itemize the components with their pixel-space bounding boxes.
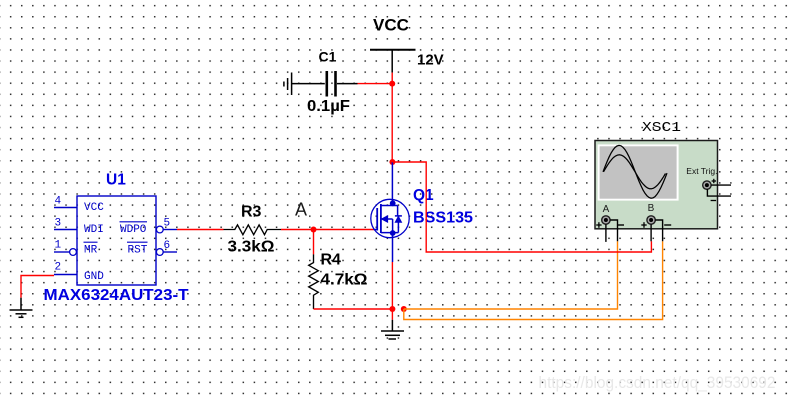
svg-text:A: A: [603, 204, 610, 215]
channel A plus mark: [596, 222, 601, 228]
pin 5 (WDPO, inverted bubble): [156, 226, 163, 233]
svg-text:6: 6: [164, 240, 171, 252]
capacitor C1: [292, 83, 325, 85]
channel A terminal: [602, 216, 610, 224]
scope screen: [598, 144, 679, 200]
ground symbol (under Q1): [381, 320, 404, 339]
channel A plus stub (dangling): [605, 224, 607, 242]
resistor R4: [309, 254, 319, 309]
svg-text:C1: C1: [319, 49, 337, 65]
svg-text:1: 1: [55, 240, 62, 252]
svg-text:WDPO: WDPO: [120, 224, 147, 236]
wire: R4 bottom to ground junction: [314, 308, 393, 310]
svg-text:Q1: Q1: [413, 187, 434, 204]
wire: drain junction to scope B+: [392, 162, 651, 252]
wire: VCC rail down to drain junction: [391, 84, 393, 162]
transistor Q1 (MOSFET BSS135): [371, 162, 409, 262]
junction dot at ground: [389, 306, 395, 312]
svg-text:GND: GND: [84, 271, 104, 283]
ground symbol (left, at U1 GND): [10, 298, 33, 318]
channel A minus mark: [617, 224, 624, 226]
svg-text:A: A: [295, 200, 307, 220]
pin 3 (WDI): [54, 229, 77, 231]
wire: source net down to ground: [391, 309, 393, 320]
svg-text:VCC: VCC: [84, 202, 104, 214]
wire: orange, ground tap to scope A-: [404, 241, 618, 309]
pin 6 (RST, inverted bubble): [156, 249, 163, 256]
svg-text:U1: U1: [106, 172, 126, 189]
svg-text:https://blog.csdn.net/qq_39530: https://blog.csdn.net/qq_39530692: [539, 373, 776, 392]
svg-text:4.7kΩ: 4.7kΩ: [321, 272, 368, 289]
wire: orange, ground tap to scope B-: [404, 241, 663, 319]
channel B plus mark: [641, 222, 646, 228]
svg-text:WDI: WDI: [84, 224, 104, 236]
channel B plus stub: [650, 224, 652, 241]
svg-text:0.1µF: 0.1µF: [307, 98, 350, 115]
capacitor C1 left open-end stub: [284, 73, 292, 96]
Ext Trig minus stub: [707, 189, 731, 196]
wire: C1 to VCC rail: [358, 83, 393, 85]
svg-text:3: 3: [55, 218, 62, 230]
wire: node A down to R4: [313, 230, 315, 255]
svg-text:4: 4: [55, 196, 62, 208]
svg-text:VCC: VCC: [373, 16, 409, 35]
svg-text:R4: R4: [321, 251, 342, 268]
svg-text:BSS135: BSS135: [413, 210, 473, 227]
channel B minus mark: [664, 224, 671, 226]
scope trace wave 1: [603, 145, 667, 198]
node A junction dot: [311, 227, 317, 233]
junction dot (scope ground tap): [401, 306, 407, 312]
pin 4 (VCC): [54, 207, 77, 209]
Ext Trig terminal: [703, 181, 711, 189]
pin 2 (GND): [54, 274, 77, 276]
junction dot at drain branch: [389, 159, 395, 165]
wire: VCC down to C1 junction: [391, 73, 393, 84]
junction dot VCC/C1: [389, 81, 395, 87]
channel B minus stub: [655, 220, 662, 241]
svg-text:XSC1: XSC1: [642, 121, 681, 136]
wire: Q1 source down: [391, 262, 393, 309]
svg-text:B: B: [648, 203, 655, 214]
svg-text:2: 2: [55, 262, 62, 274]
svg-text:R3: R3: [241, 203, 262, 220]
scope trace wave 2: [604, 155, 666, 189]
channel B terminal: [647, 216, 655, 224]
pin 1 (MR, inverted bubble): [54, 251, 70, 253]
wire: left ground net to U1 pin 2: [21, 276, 54, 298]
svg-text:Ext Trig.: Ext Trig.: [686, 166, 717, 176]
Ext Trig plus stub: [711, 184, 731, 186]
svg-text:MAX6324AUT23-T: MAX6324AUT23-T: [44, 287, 189, 304]
IC U1 body: [77, 196, 156, 285]
wire: U1 pin5 to R3: [177, 229, 224, 231]
channel A minus stub: [610, 220, 617, 241]
wire: R3 to node A: [281, 229, 314, 231]
Ext Trig minus mark: [711, 200, 717, 202]
oscilloscope XSC1 body: [595, 141, 718, 229]
resistor R3: [224, 225, 282, 235]
svg-text:RST: RST: [128, 244, 148, 256]
svg-text:3.3kΩ: 3.3kΩ: [228, 239, 275, 256]
svg-text:12V: 12V: [417, 52, 444, 69]
svg-text:MR: MR: [84, 244, 98, 256]
svg-text:5: 5: [164, 218, 171, 230]
Ext Trig plus mark: [712, 179, 716, 183]
wire: node A to Q1 gate: [314, 229, 375, 231]
